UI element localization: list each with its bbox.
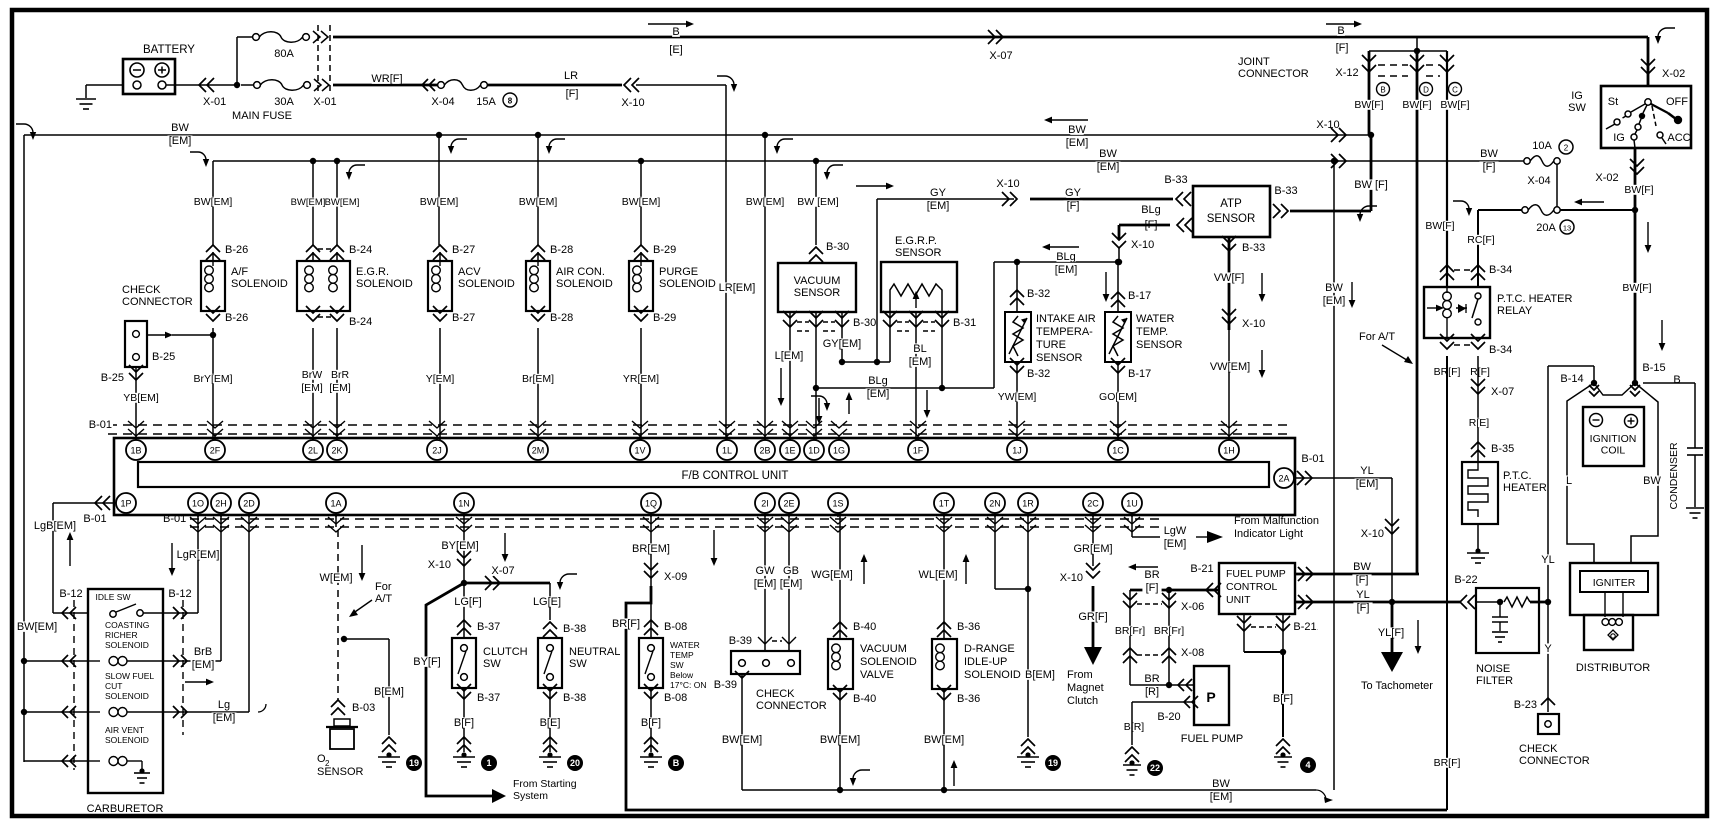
wire battery to ground: [86, 84, 123, 86]
pin 2J: [427, 440, 447, 460]
svg-text:B-29: B-29: [653, 312, 676, 324]
svg-text:SOLENOID: SOLENOID: [356, 278, 413, 290]
wire R to PTC heater: [1477, 356, 1479, 462]
svg-text:E.G.R.: E.G.R.: [356, 266, 389, 278]
svg-text:B[F]: B[F]: [454, 717, 474, 729]
wire BR from 1Q: [650, 513, 652, 603]
svg-text:BW[EM]: BW[EM]: [17, 621, 57, 633]
svg-text:WATER: WATER: [670, 640, 700, 650]
label LR[EM]: [719, 282, 755, 292]
svg-text:IGNITION: IGNITION: [1590, 433, 1637, 445]
wire BW[EM] to pin 2B: [762, 132, 768, 138]
svg-text:X-10: X-10: [428, 559, 451, 571]
pin 1E: [780, 440, 800, 460]
svg-text:1N: 1N: [458, 499, 470, 509]
svg-text:[F]: [F]: [1067, 200, 1080, 212]
wire 20A to IG node: [1560, 209, 1635, 211]
svg-text:[R]: [R]: [1145, 686, 1159, 698]
svg-text:[EM]: [EM]: [867, 388, 890, 400]
svg-text:X-04: X-04: [431, 96, 454, 108]
svg-text:SOLENOID: SOLENOID: [105, 640, 149, 650]
water temp sensor: [1115, 259, 1121, 265]
svg-text:IG: IG: [1571, 90, 1583, 102]
wire IG SW output: [1634, 149, 1637, 210]
svg-text:RICHER: RICHER: [105, 630, 138, 640]
svg-text:BW: BW: [171, 122, 189, 134]
label BW[F] lower right: [1482, 148, 1495, 158]
svg-text:B-32: B-32: [1027, 288, 1050, 300]
check connector B-23: [1547, 602, 1549, 712]
svg-text:B-39: B-39: [714, 679, 737, 691]
wire 2N 1R to ground: [994, 513, 996, 589]
wire B[E]/B[F] main battery line: [333, 36, 1648, 39]
svg-text:[F]: [F]: [1483, 161, 1496, 173]
svg-text:[E]: [E]: [669, 44, 682, 56]
svg-text:SENSOR: SENSOR: [794, 287, 841, 299]
node bus2 BW[EM] drop: [1331, 158, 1337, 164]
pin 1G: [829, 440, 849, 460]
svg-text:YL[F]: YL[F]: [1378, 627, 1404, 639]
svg-text:PURGE: PURGE: [659, 266, 698, 278]
svg-text:CONNECTOR: CONNECTOR: [1238, 68, 1309, 80]
IG switch: [1601, 86, 1691, 148]
wire GY riser: [839, 359, 845, 365]
svg-text:B-26: B-26: [225, 244, 248, 256]
svg-text:BrY[EM]: BrY[EM]: [193, 373, 232, 385]
svg-text:[EM]: [EM]: [909, 356, 932, 368]
wire X-04 between fuses: [1556, 164, 1558, 207]
svg-text:[EM]: [EM]: [213, 712, 236, 724]
svg-text:BW[F]: BW[F]: [1624, 184, 1653, 196]
arrow hook LR corner: [717, 76, 734, 85]
svg-text:YL: YL: [1541, 554, 1554, 566]
svg-text:B-27: B-27: [452, 312, 475, 324]
wire X-07 to LG[E]: [464, 582, 550, 585]
svg-text:B: B: [1673, 374, 1680, 386]
svg-text:B-28: B-28: [550, 244, 573, 256]
label BW[F] leg D: [1425, 221, 1454, 231]
node A/F check junction: [210, 332, 216, 338]
carburetor box: [88, 589, 163, 793]
wire BW[EM] to EGR solenoid R: [334, 158, 340, 164]
O2 sensor: [331, 700, 345, 707]
svg-text:SOLENOID: SOLENOID: [860, 656, 917, 668]
svg-text:P.T.C.: P.T.C.: [1503, 470, 1532, 482]
svg-text:B-30: B-30: [826, 241, 849, 253]
connector B-01 upper dashed bus: [108, 424, 1290, 426]
wire LgR 1O to idle switch: [163, 612, 198, 614]
svg-text:B-37: B-37: [477, 621, 500, 633]
svg-text:1E: 1E: [784, 446, 795, 456]
svg-text:COASTING: COASTING: [105, 620, 149, 630]
node B-15: [1632, 380, 1638, 386]
arrow hooks bus drops: [451, 139, 467, 147]
pin 1T: [934, 493, 954, 513]
pin 1S: [828, 493, 848, 513]
svg-text:2H: 2H: [215, 499, 227, 509]
svg-text:A/F: A/F: [231, 266, 248, 278]
connector X-01 left: [199, 78, 206, 92]
pin 1V: [630, 440, 650, 460]
svg-text:B-36: B-36: [957, 621, 980, 633]
pin 1H: [1219, 440, 1239, 460]
svg-text:Clutch: Clutch: [1067, 695, 1098, 707]
svg-text:BrR: BrR: [331, 369, 350, 381]
svg-text:B-39: B-39: [729, 635, 752, 647]
pin 1U: [1122, 493, 1142, 513]
svg-text:SW: SW: [1568, 102, 1586, 114]
svg-text:[EM]: [EM]: [1210, 791, 1233, 803]
svg-text:WL[EM]: WL[EM]: [918, 569, 957, 581]
condenser: [1643, 382, 1695, 384]
svg-text:1R: 1R: [1022, 499, 1034, 509]
pin 2M: [528, 440, 548, 460]
pin 1O: [188, 493, 208, 513]
svg-text:B-17: B-17: [1128, 368, 1151, 380]
svg-text:[EM]: [EM]: [1164, 538, 1187, 550]
svg-text:B-14: B-14: [1560, 373, 1583, 385]
svg-text:[EM]: [EM]: [754, 578, 777, 590]
svg-text:From Starting: From Starting: [513, 778, 577, 790]
wire BR[F] relay to bottom: [1446, 356, 1448, 810]
svg-text:MAIN FUSE: MAIN FUSE: [232, 110, 292, 122]
check connector B-39 box: [731, 651, 800, 674]
fuel pump control unit box: [1219, 563, 1295, 614]
svg-text:2E: 2E: [783, 499, 794, 509]
svg-text:GY[EM]: GY[EM]: [823, 338, 862, 350]
svg-text:1H: 1H: [1223, 446, 1235, 456]
pin 2D: [239, 493, 259, 513]
svg-text:B[EM]: B[EM]: [1025, 669, 1055, 681]
vacuum sensor: [809, 247, 823, 254]
ground battery: [76, 98, 96, 100]
svg-text:B-27: B-27: [452, 244, 475, 256]
svg-text:CONNECTOR: CONNECTOR: [756, 700, 827, 712]
fuse 20A: [1522, 207, 1528, 213]
svg-text:[F]: [F]: [1357, 602, 1370, 614]
node BLg at EGRP right: [939, 385, 945, 391]
svg-text:BY[F]: BY[F]: [413, 656, 441, 668]
svg-text:WATER: WATER: [1136, 313, 1175, 325]
svg-text:BLg: BLg: [1056, 251, 1076, 263]
svg-text:20: 20: [570, 758, 580, 768]
pin 2A: [1274, 468, 1294, 488]
wire BW[EM] to vacuum sensor: [813, 158, 819, 164]
wire bottom BW[EM] run: [742, 789, 1316, 791]
svg-text:22: 22: [1150, 763, 1160, 773]
svg-text:BW: BW: [1068, 124, 1086, 136]
A/F solenoid: [206, 245, 220, 252]
arrow hook bus1 left end: [16, 124, 33, 133]
wire BW[EM] left vertical to carburetor: [23, 135, 25, 762]
svg-text:IG: IG: [1613, 132, 1625, 144]
wire BrB 2H: [163, 660, 221, 662]
svg-text:CONTROL: CONTROL: [1226, 581, 1277, 593]
svg-text:LG[E]: LG[E]: [533, 596, 561, 608]
svg-text:BW[F]: BW[F]: [1402, 99, 1431, 111]
svg-text:[F]: [F]: [1356, 574, 1369, 586]
fuse 80A: [237, 36, 252, 38]
pin 2N: [985, 493, 1005, 513]
svg-text:B-17: B-17: [1128, 290, 1151, 302]
svg-text:BW: BW: [1353, 561, 1371, 573]
arrow BL flow: [926, 390, 928, 412]
svg-text:2: 2: [325, 759, 330, 768]
svg-text:[F]: [F]: [566, 88, 579, 100]
pin 2F: [205, 440, 225, 460]
svg-text:B-21: B-21: [1190, 563, 1213, 575]
wire LG[F] clutch: [463, 583, 465, 638]
connector X-04: [422, 79, 428, 91]
svg-text:CHECK: CHECK: [122, 284, 161, 296]
svg-text:HEATER: HEATER: [1503, 482, 1547, 494]
wire battery to X-01: [166, 84, 237, 86]
svg-text:19: 19: [1048, 758, 1058, 768]
svg-text:SOLENOID: SOLENOID: [458, 278, 515, 290]
svg-text:SOLENOID: SOLENOID: [556, 278, 613, 290]
svg-text:B-03: B-03: [352, 702, 375, 714]
svg-text:2K: 2K: [331, 446, 342, 456]
svg-text:1S: 1S: [832, 499, 843, 509]
AIR CON solenoid: [531, 245, 545, 252]
svg-text:2J: 2J: [432, 446, 442, 456]
svg-text:X-10: X-10: [1361, 528, 1384, 540]
svg-text:B-36: B-36: [957, 693, 980, 705]
svg-text:BW [F]: BW [F]: [1354, 179, 1388, 191]
svg-text:BLg: BLg: [1141, 204, 1161, 216]
connector X-10 bus1: [1339, 128, 1346, 142]
svg-text:B-29: B-29: [653, 244, 676, 256]
connector B-01 lower dashed bus: [190, 518, 1160, 520]
svg-text:B-33: B-33: [1274, 185, 1297, 197]
svg-text:CONNECTOR: CONNECTOR: [122, 296, 193, 308]
node bus1 joint leg: [1368, 132, 1374, 138]
label B [F]: [1337, 25, 1345, 35]
svg-text:CHECK: CHECK: [756, 688, 795, 700]
svg-text:B-01: B-01: [89, 419, 112, 431]
svg-text:FUEL PUMP: FUEL PUMP: [1181, 733, 1244, 745]
svg-text:F/B CONTROL UNIT: F/B CONTROL UNIT: [682, 470, 789, 482]
svg-text:FILTER: FILTER: [1476, 675, 1513, 687]
svg-text:19: 19: [409, 758, 419, 768]
pin 1F: [908, 440, 928, 460]
svg-text:X-07: X-07: [491, 565, 514, 577]
node BY junction: [461, 580, 467, 586]
wire B[F] to IG SW: [1647, 37, 1650, 85]
wire BLg from 1D: [813, 385, 819, 391]
pin 2B: [755, 440, 775, 460]
svg-text:WR[F]: WR[F]: [371, 73, 402, 85]
svg-text:BW[EM]: BW[EM]: [622, 196, 661, 208]
svg-text:L[EM]: L[EM]: [775, 350, 804, 362]
svg-text:2L: 2L: [308, 446, 318, 456]
D-range idle-up solenoid: [943, 513, 945, 639]
svg-text:SOLENOID: SOLENOID: [105, 735, 149, 745]
arrow B[F] flow: [1326, 23, 1356, 25]
wire BW[EM] to PURGE solenoid: [638, 158, 644, 164]
pin 2H: [211, 493, 231, 513]
svg-text:LR: LR: [564, 70, 578, 82]
label BW[EM] upper right: [1050, 119, 1088, 121]
svg-text:1O: 1O: [192, 499, 204, 509]
wire B[EM] branch: [341, 636, 347, 642]
svg-text:B[E]: B[E]: [540, 717, 561, 729]
svg-text:INTAKE AIR: INTAKE AIR: [1036, 313, 1096, 325]
pin 2K: [327, 440, 347, 460]
svg-text:LG[F]: LG[F]: [454, 596, 482, 608]
svg-text:D-RANGE: D-RANGE: [964, 643, 1015, 655]
vacuum solenoid valve: [839, 513, 841, 639]
label BW[EM] carb: [19, 621, 55, 631]
svg-text:X-02: X-02: [1595, 172, 1618, 184]
svg-text:B-08: B-08: [664, 692, 687, 704]
wire LgW to malfunction light: [1131, 513, 1133, 537]
svg-text:ACV: ACV: [458, 266, 481, 278]
svg-text:DISTRIBUTOR: DISTRIBUTOR: [1576, 662, 1650, 674]
wires BR[Fr] to fuel pump: [1129, 590, 1131, 685]
wire YL to coil: [1547, 366, 1549, 601]
svg-text:B: B: [1380, 86, 1385, 95]
svg-text:ACC: ACC: [1667, 132, 1690, 144]
svg-text:YL: YL: [1356, 589, 1369, 601]
svg-text:X-10: X-10: [1316, 119, 1339, 131]
svg-text:[EM]: [EM]: [1066, 137, 1089, 149]
F/B control unit box: [114, 438, 1295, 515]
svg-text:B-32: B-32: [1027, 368, 1050, 380]
arrow IG down: [1647, 222, 1649, 247]
svg-text:B-24: B-24: [349, 316, 372, 328]
svg-text:E.G.R.P.: E.G.R.P.: [895, 235, 937, 247]
svg-text:B-20: B-20: [1157, 711, 1180, 723]
svg-text:B-33: B-33: [1164, 174, 1187, 186]
svg-text:IDLE-UP: IDLE-UP: [964, 656, 1007, 668]
svg-text:To Tachometer: To Tachometer: [1361, 680, 1433, 692]
igniter distributor: [1570, 563, 1658, 615]
svg-text:2N: 2N: [989, 499, 1001, 509]
svg-text:LgR[EM]: LgR[EM]: [177, 549, 220, 561]
svg-text:B-38: B-38: [563, 623, 586, 635]
svg-text:X-10: X-10: [1131, 239, 1154, 251]
PTC heater relay: [1440, 265, 1454, 272]
wire IG BW[F] down to coil: [1634, 210, 1637, 383]
svg-text:YW[EM]: YW[EM]: [998, 391, 1037, 403]
svg-text:1P: 1P: [120, 499, 131, 509]
svg-text:X-10: X-10: [1242, 318, 1265, 330]
svg-text:B: B: [1337, 25, 1344, 37]
connector B-12 left dashed: [73, 600, 75, 770]
svg-text:CONNECTOR: CONNECTOR: [1519, 755, 1590, 767]
svg-text:1G: 1G: [833, 446, 845, 456]
wire bus BW[EM]/BW[F] lower: [213, 160, 1524, 162]
svg-text:X-08: X-08: [1181, 647, 1204, 659]
svg-text:1D: 1D: [808, 446, 820, 456]
svg-text:St: St: [1608, 96, 1618, 108]
svg-text:BATTERY: BATTERY: [143, 44, 195, 56]
svg-text:X-02: X-02: [1662, 68, 1685, 80]
pin 1Q: [641, 493, 661, 513]
neutral switch: [543, 622, 557, 629]
svg-text:B[EM]: B[EM]: [374, 686, 404, 698]
svg-text:Br[EM]: Br[EM]: [522, 373, 554, 385]
svg-text:2C: 2C: [1087, 499, 1099, 509]
svg-text:BW[F]: BW[F]: [1622, 282, 1651, 294]
fuel pump: [1194, 666, 1229, 725]
svg-text:B-24: B-24: [349, 244, 372, 256]
svg-text:SENSOR: SENSOR: [317, 766, 364, 778]
clutch switch: [452, 638, 476, 688]
pin 2C: [1083, 493, 1103, 513]
svg-text:BW: BW: [1212, 778, 1230, 790]
svg-text:B-25: B-25: [101, 372, 124, 384]
svg-text:[EM]: [EM]: [329, 382, 351, 394]
fuse 30A MAIN FUSE: [241, 84, 253, 86]
wire 1P to LgB: [53, 502, 116, 504]
svg-text:B: B: [672, 26, 679, 38]
svg-text:2B: 2B: [759, 446, 770, 456]
svg-text:1J: 1J: [1012, 446, 1022, 456]
svg-text:BrW: BrW: [302, 369, 323, 381]
svg-text:BW[EM]: BW[EM]: [924, 734, 964, 746]
svg-text:X-01: X-01: [313, 96, 336, 108]
svg-text:From: From: [1067, 669, 1093, 681]
svg-text:YR[EM]: YR[EM]: [623, 373, 659, 385]
svg-text:B-01: B-01: [163, 513, 186, 525]
svg-text:GR[F]: GR[F]: [1078, 611, 1107, 623]
svg-text:BW[EM]: BW[EM]: [325, 197, 360, 208]
pin 1B: [126, 440, 146, 460]
label BW[EM] right drop: [1327, 282, 1340, 292]
svg-text:P: P: [1206, 689, 1215, 705]
svg-text:BW[EM]: BW[EM]: [820, 734, 860, 746]
svg-text:System: System: [513, 790, 548, 802]
svg-text:X-10: X-10: [621, 97, 644, 109]
svg-text:B-31: B-31: [953, 317, 976, 329]
svg-text:R[E]: R[E]: [1469, 417, 1490, 429]
svg-text:1: 1: [486, 758, 491, 768]
connector X-01 right dashed: [317, 25, 319, 95]
svg-text:Y: Y: [1544, 643, 1552, 655]
svg-text:Magnet: Magnet: [1067, 682, 1104, 694]
pin 2A output YL[EM]: [1294, 477, 1392, 479]
svg-text:X-12: X-12: [1335, 67, 1358, 79]
wire W[EM] from 1A: [335, 513, 337, 527]
fuse 15A: [438, 82, 445, 89]
svg-text:B-23: B-23: [1514, 699, 1537, 711]
svg-text:Lg: Lg: [218, 699, 230, 711]
E.G.R. solenoid: [306, 245, 320, 252]
svg-text:B-35: B-35: [1491, 443, 1514, 455]
svg-text:BR[F]: BR[F]: [612, 618, 640, 630]
wire GY[EM] bus: [856, 185, 888, 187]
svg-text:BR: BR: [1144, 673, 1159, 685]
FPCU right outputs: [1295, 573, 1419, 576]
svg-text:From Malfunction: From Malfunction: [1234, 515, 1319, 527]
svg-text:SENSOR: SENSOR: [895, 247, 942, 259]
svg-text:[EM]: [EM]: [1323, 295, 1346, 307]
svg-text:L: L: [1566, 475, 1572, 487]
ATP right output B-33: [1281, 204, 1288, 218]
wire BY[F] to starting system: [426, 583, 492, 796]
svg-text:1U: 1U: [1126, 499, 1138, 509]
svg-text:BY[EM]: BY[EM]: [441, 540, 478, 552]
svg-text:GB: GB: [783, 565, 799, 577]
svg-text:CARBURETOR: CARBURETOR: [87, 803, 164, 815]
svg-text:1L: 1L: [722, 446, 732, 456]
svg-text:BR: BR: [1144, 569, 1159, 581]
connector B-39 chevrons: [758, 637, 772, 644]
ATP bottom output VW: [1228, 237, 1231, 330]
svg-text:VALVE: VALVE: [860, 669, 894, 681]
